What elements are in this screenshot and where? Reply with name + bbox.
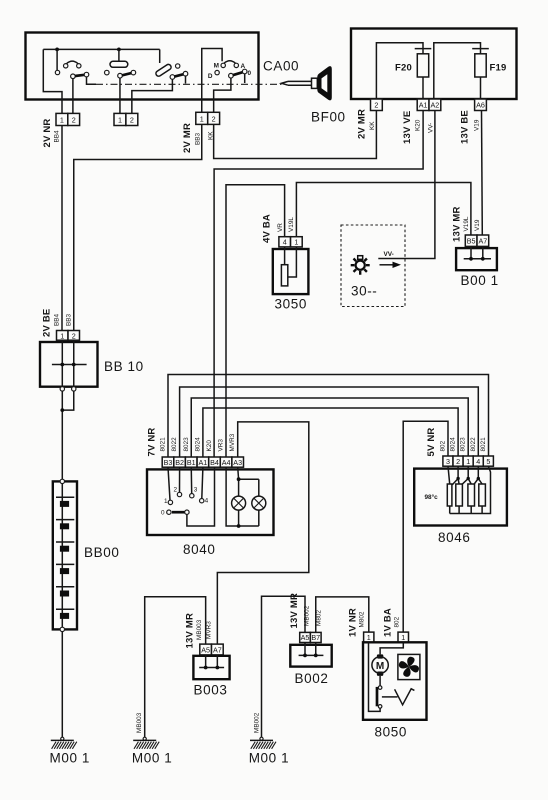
svg-text:8050: 8050 [375,725,407,740]
svg-text:A1: A1 [419,101,428,110]
svg-text:8023: 8023 [460,437,467,452]
svg-text:7V NR: 7V NR [147,428,158,457]
svg-text:M802: M802 [316,610,323,626]
svg-text:D: D [208,73,213,80]
svg-text:A3: A3 [233,458,242,467]
svg-text:MVR3: MVR3 [206,621,213,639]
svg-text:1: 1 [466,457,470,466]
svg-text:8021: 8021 [480,437,487,452]
svg-text:8022: 8022 [171,437,178,452]
svg-text:2V BE: 2V BE [42,309,53,337]
svg-text:MVR3: MVR3 [229,433,236,451]
svg-text:B00 1: B00 1 [461,273,499,288]
svg-text:1V BA: 1V BA [383,608,394,637]
svg-text:BB4: BB4 [54,130,61,143]
svg-text:BF00: BF00 [311,110,346,125]
svg-text:A7: A7 [213,645,222,654]
svg-text:A: A [241,63,246,70]
svg-text:8024: 8024 [194,437,201,452]
svg-text:1: 1 [367,633,371,642]
svg-text:A5: A5 [201,645,210,654]
svg-text:8046: 8046 [438,530,470,545]
svg-text:2V NR: 2V NR [42,119,53,148]
svg-text:3: 3 [446,457,450,466]
svg-text:13V MR: 13V MR [289,593,300,629]
svg-text:13V VE: 13V VE [402,111,413,144]
svg-text:4: 4 [205,498,209,505]
svg-text:VV-: VV- [384,251,394,258]
svg-text:4: 4 [476,457,480,466]
svg-text:1V NR: 1V NR [348,608,359,637]
svg-text:B2: B2 [175,458,184,467]
svg-text:1: 1 [294,238,298,247]
svg-text:F19: F19 [490,63,507,74]
svg-text:8040: 8040 [183,542,215,557]
svg-text:4: 4 [283,238,287,247]
svg-text:BB4: BB4 [54,313,61,326]
svg-text:4V BA: 4V BA [262,214,273,243]
svg-text:2: 2 [374,101,378,110]
svg-text:2V MR: 2V MR [182,123,193,153]
svg-text:0: 0 [248,70,252,77]
svg-text:A7: A7 [478,237,487,246]
svg-text:1: 1 [200,114,204,123]
svg-text:VR: VR [277,223,284,232]
svg-text:A1: A1 [199,458,208,467]
svg-text:K20: K20 [206,440,213,452]
svg-text:1: 1 [401,633,405,642]
svg-text:8022: 8022 [470,437,477,452]
svg-text:M00 1: M00 1 [50,751,91,766]
svg-text:A5: A5 [301,633,310,642]
svg-text:2: 2 [72,116,76,125]
svg-text:V19: V19 [474,219,481,231]
svg-text:13V BE: 13V BE [460,110,471,144]
svg-text:V19L: V19L [288,217,295,232]
svg-text:V19L: V19L [463,216,470,231]
svg-text:802: 802 [394,616,401,627]
svg-text:F20: F20 [395,63,412,74]
svg-text:VR3: VR3 [218,439,225,452]
svg-text:V19: V19 [474,119,481,131]
svg-text:M: M [214,63,219,70]
svg-text:2: 2 [212,114,216,123]
svg-text:BB3: BB3 [195,132,202,145]
svg-text:30--: 30-- [351,284,377,299]
svg-text:13V MR: 13V MR [452,206,463,242]
svg-text:M: M [376,661,384,672]
svg-text:2: 2 [174,487,178,494]
svg-text:2: 2 [456,457,460,466]
svg-text:CA00: CA00 [263,59,299,74]
svg-text:VV-: VV- [428,123,435,133]
svg-text:2: 2 [72,331,76,340]
svg-text:5V NR: 5V NR [426,428,437,457]
svg-text:8024: 8024 [450,437,457,452]
svg-text:K20: K20 [415,119,422,131]
svg-text:3: 3 [194,487,198,494]
svg-text:B7: B7 [311,633,320,642]
svg-text:1: 1 [60,331,64,340]
svg-text:802: 802 [440,440,447,451]
svg-text:MB003: MB003 [196,619,203,640]
svg-text:BB3: BB3 [66,313,73,326]
svg-text:B3: B3 [164,458,173,467]
svg-text:13V MR: 13V MR [185,613,196,649]
svg-text:KK: KK [369,121,376,130]
svg-text:B003: B003 [194,683,228,698]
svg-text:M802: M802 [359,611,366,627]
svg-text:3050: 3050 [275,297,307,312]
svg-text:8023: 8023 [183,437,190,452]
svg-text:B1: B1 [187,458,196,467]
svg-text:MB002: MB002 [254,712,261,733]
svg-text:MB003: MB003 [136,712,143,733]
svg-text:B5: B5 [467,237,476,246]
svg-text:8021: 8021 [160,437,167,452]
svg-text:B4: B4 [210,458,219,467]
svg-text:1: 1 [60,116,64,125]
svg-text:MB002: MB002 [304,605,311,626]
svg-text:2V MR: 2V MR [357,109,368,139]
svg-text:0: 0 [161,510,165,517]
svg-text:98°c: 98°c [425,493,439,501]
svg-text:B002: B002 [295,671,329,686]
svg-text:BB00: BB00 [84,545,119,560]
svg-text:A2: A2 [431,101,440,110]
svg-text:A4: A4 [222,458,231,467]
svg-text:5: 5 [486,457,490,466]
svg-text:1: 1 [164,498,168,505]
svg-text:1: 1 [118,116,122,125]
svg-text:2: 2 [130,116,134,125]
svg-text:A6: A6 [476,101,485,110]
svg-text:BB 10: BB 10 [104,359,144,374]
